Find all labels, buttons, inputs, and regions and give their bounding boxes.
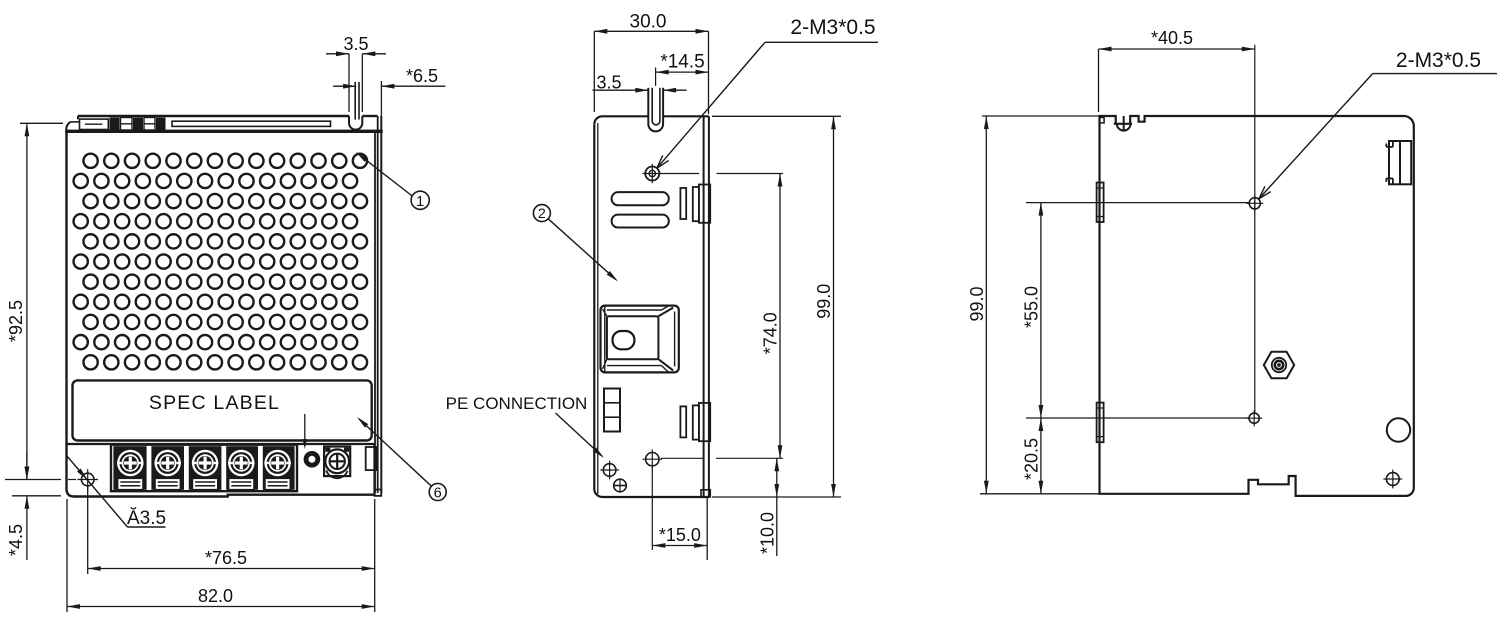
svg-text:*40.5: *40.5 [1151, 28, 1193, 48]
svg-text:2: 2 [538, 205, 546, 221]
svg-text:3.5: 3.5 [343, 34, 368, 54]
svg-text:*92.5: *92.5 [6, 300, 26, 342]
svg-text:*20.5: *20.5 [1022, 438, 1042, 480]
svg-text:2-M3*0.5: 2-M3*0.5 [1396, 49, 1481, 72]
svg-text:*14.5: *14.5 [660, 52, 704, 73]
svg-text:*55.0: *55.0 [1022, 286, 1042, 328]
svg-text:99.0: 99.0 [967, 286, 987, 321]
svg-text:99.0: 99.0 [814, 284, 834, 319]
svg-text:*6.5: *6.5 [406, 66, 438, 86]
svg-text:SPEC LABEL: SPEC LABEL [149, 392, 280, 414]
svg-text:*74.0: *74.0 [761, 312, 781, 354]
svg-text:*4.5: *4.5 [6, 524, 26, 556]
svg-text:1: 1 [416, 194, 424, 210]
svg-text:Ă3.5: Ă3.5 [127, 508, 166, 529]
svg-text:*76.5: *76.5 [205, 548, 247, 568]
svg-text:82.0: 82.0 [198, 586, 233, 606]
svg-text:*10.0: *10.0 [758, 512, 778, 554]
svg-text:3.5: 3.5 [596, 73, 621, 93]
svg-text:2-M3*0.5: 2-M3*0.5 [790, 16, 875, 39]
svg-text:6: 6 [434, 486, 442, 502]
svg-text:30.0: 30.0 [630, 12, 667, 33]
svg-text:PE CONNECTION: PE CONNECTION [446, 394, 588, 413]
svg-text:*15.0: *15.0 [659, 525, 701, 545]
